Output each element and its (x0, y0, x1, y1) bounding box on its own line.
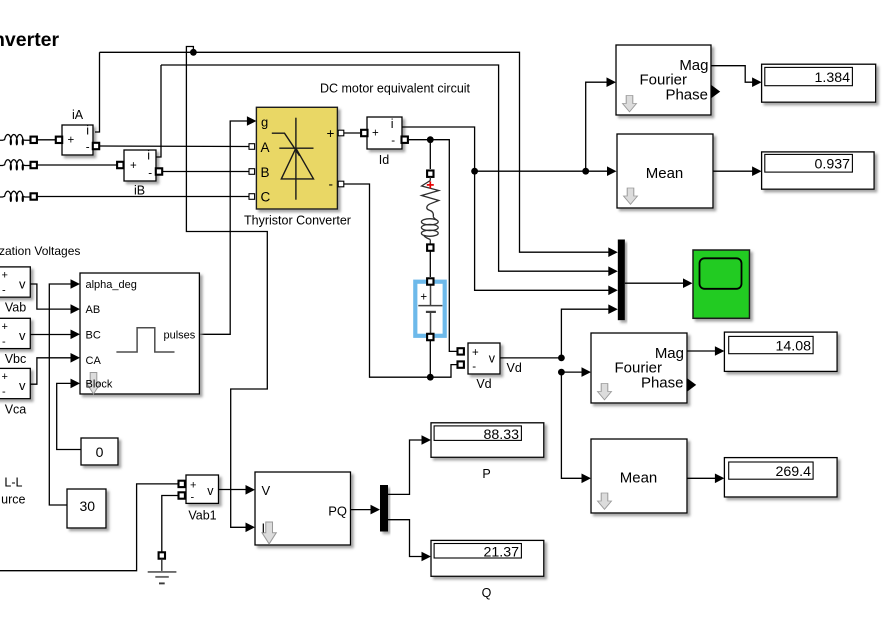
junction: mean/fourier branch (582, 168, 589, 175)
annotation: source label (clipped) (1, 476, 25, 507)
wire: 30 to alpha_deg input (49, 279, 80, 505)
svg-text:Mean: Mean (646, 165, 684, 182)
svg-text:v: v (19, 328, 26, 343)
svg-text:+: + (2, 371, 8, 383)
svg-text:C: C (261, 190, 271, 205)
wire: iA signal horizontal bus to mux (100, 52, 618, 257)
wire: battery minus down to dc bus (429, 340, 431, 377)
wire: pulses to g input (199, 116, 256, 334)
svg-text:i: i (86, 123, 89, 137)
voltage measurement Vbc (0, 318, 30, 366)
mean block 1 (617, 134, 713, 208)
display P (431, 423, 544, 481)
svg-text:BC: BC (86, 330, 101, 342)
svg-text:Block: Block (86, 378, 113, 390)
demux bar (380, 485, 388, 532)
svg-text:alpha_deg: alpha_deg (86, 279, 137, 291)
wire: iB minus to thyristor B (162, 171, 249, 173)
svg-text:v: v (207, 484, 214, 498)
svg-text:Vca: Vca (5, 403, 27, 417)
svg-text:I: I (262, 521, 266, 536)
wire: Vd down to Mean2 input (561, 372, 591, 483)
wire: fourier1 mag to display (711, 66, 762, 87)
svg-text:-: - (391, 135, 395, 147)
voltage measurement Vab1 (179, 475, 219, 523)
display 0.937 (762, 152, 875, 189)
wire: iB signal bus to mux (161, 65, 618, 276)
wire: Lb to iB+ (37, 164, 118, 166)
svg-text:g: g (261, 115, 268, 130)
junction: Vd node 1 (558, 355, 565, 362)
display 1.384 (762, 64, 876, 102)
svg-text:-: - (148, 168, 152, 180)
wire: thyristor + to Id (344, 132, 362, 134)
node: phase C terminal (31, 193, 37, 199)
svg-text:Vd: Vd (476, 377, 491, 391)
display Q (431, 540, 544, 600)
svg-text:Phase: Phase (641, 374, 684, 391)
wire: iB i-output up to bus (157, 65, 162, 157)
svg-text:v: v (19, 378, 26, 393)
svg-text:+: + (2, 321, 8, 333)
display 269.4 (724, 458, 837, 497)
wire: source line to Vab1 plus (0, 484, 179, 571)
svg-text:+: + (130, 160, 137, 172)
wire: La to iA+ (37, 139, 57, 141)
svg-text:-: - (2, 386, 6, 398)
power measurement PQ block (255, 472, 351, 545)
wire: node down to RL branch (429, 140, 431, 169)
title annotation (clipped) (0, 29, 60, 51)
svg-text:i: i (391, 117, 394, 131)
wire: Vab to AB input (30, 284, 80, 314)
svg-text:1.384: 1.384 (814, 70, 850, 86)
voltage measurement Vca (0, 368, 30, 416)
svg-text:+: + (472, 347, 479, 359)
wire: Vca to CA input (30, 353, 80, 384)
svg-text:i: i (147, 148, 150, 162)
svg-text:+: + (190, 480, 196, 492)
svg-text:-: - (86, 142, 90, 154)
svg-text:0.937: 0.937 (814, 157, 850, 173)
constant 30 alpha (67, 489, 106, 528)
wire: iA minus to thyristor A (100, 145, 249, 148)
ground symbol (148, 552, 177, 583)
svg-text:+: + (420, 292, 427, 304)
fourier block 1 (616, 45, 720, 115)
svg-text:zation Voltages: zation Voltages (0, 244, 80, 258)
wire: Id i-output to fourier/mean/mux (402, 127, 618, 295)
wire: mean1 to display (713, 166, 762, 176)
wire: Id minus to load branch (407, 139, 430, 141)
annotation: DC motor equivalent circuit (320, 82, 471, 96)
current measurement iA (56, 108, 99, 155)
svg-text:Id: Id (379, 153, 389, 167)
svg-text:v: v (19, 277, 26, 292)
wires and components layer (0, 135, 249, 202)
svg-text:v: v (489, 351, 496, 365)
svg-text:DC motor equivalent circuit: DC motor equivalent circuit (320, 82, 471, 96)
dc voltage source (selected, blue highlight) (415, 278, 444, 340)
svg-text:+: + (372, 128, 379, 140)
series RLC branch (R and L) (421, 171, 438, 251)
svg-text:14.08: 14.08 (775, 338, 811, 354)
pulse generator block (80, 273, 199, 394)
svg-text:Q: Q (482, 586, 492, 600)
svg-text:PQ: PQ (328, 504, 347, 519)
svg-text:urce: urce (1, 493, 25, 507)
svg-text:-: - (2, 285, 6, 297)
wire: Vab1 output to PQ V input (219, 485, 256, 495)
current measurement Id (361, 117, 408, 167)
svg-text:P: P (482, 467, 490, 481)
svg-text:Vab1: Vab1 (188, 509, 216, 523)
inductor Lc phase C (0, 191, 31, 201)
voltage measurement Vd (458, 343, 501, 391)
svg-text:nverter: nverter (0, 29, 60, 51)
wire: RL to battery (429, 250, 431, 277)
wire: Vd to Fourier2 input (561, 367, 591, 377)
annotation: Synchronization Voltages (clipped) (0, 244, 80, 258)
voltage measurement Vab (0, 267, 30, 315)
mux block (618, 240, 625, 321)
svg-text:AB: AB (86, 304, 101, 316)
fourier block 2 (591, 333, 696, 403)
wire: Id signal to Mean (475, 166, 617, 176)
svg-text:pulses: pulses (164, 330, 196, 342)
wire: demux to P display (388, 435, 431, 494)
svg-text:-: - (2, 336, 6, 348)
svg-text:0: 0 (96, 444, 104, 460)
wire: fourier2 mag to display (687, 346, 724, 356)
inductor La phase A (0, 135, 31, 145)
wire: iA i-output up to bus (95, 52, 100, 132)
scope block (693, 250, 750, 318)
junction: iA signal branch (190, 49, 197, 56)
svg-text:Thyristor Converter: Thyristor Converter (244, 214, 351, 228)
svg-text:269.4: 269.4 (775, 464, 811, 480)
thyristor converter block (244, 107, 351, 227)
svg-text:+: + (68, 135, 75, 147)
inductor Lb phase B (0, 160, 31, 170)
svg-text:Vbc: Vbc (5, 352, 27, 366)
svg-text:L-L: L-L (4, 476, 22, 490)
junction: dc bus node (427, 374, 434, 381)
svg-text:+: + (327, 126, 335, 141)
svg-text:88.33: 88.33 (483, 427, 519, 443)
svg-text:iB: iB (134, 184, 145, 198)
current measurement iB (117, 148, 162, 197)
junction: Id signal node (471, 168, 478, 175)
svg-text:B: B (261, 165, 270, 180)
svg-text:+: + (2, 270, 8, 282)
svg-text:-: - (472, 361, 476, 373)
svg-text:iA: iA (72, 108, 84, 122)
node: phase A terminal (31, 137, 37, 143)
svg-text:Vab: Vab (5, 301, 26, 315)
svg-text:-: - (191, 492, 195, 504)
svg-text:Phase: Phase (665, 86, 708, 103)
wire: 0 to Block input (57, 379, 81, 450)
wire: thyristor - down to dc bus junction (344, 184, 428, 377)
svg-text:-: - (329, 177, 334, 192)
wire: dc bus to Vd minus (430, 365, 458, 378)
wire: branch up to Fourier input (586, 77, 616, 171)
wire: Vbc to BC input (30, 330, 80, 340)
svg-text:A: A (261, 140, 270, 155)
svg-text:30: 30 (80, 498, 96, 514)
wire: PQ output to demux (351, 505, 381, 515)
constant 0 block (81, 438, 118, 465)
display 14.08 (724, 332, 837, 371)
svg-text:Vd: Vd (507, 361, 522, 375)
junction: load top node (427, 136, 434, 143)
wire: mux output to scope (625, 278, 693, 288)
wire: Lc to thyristor C input (37, 196, 249, 198)
thyristor symbol icon (272, 118, 314, 200)
wire: Vab1 minus to ground (162, 496, 179, 553)
wire: Vd up to mux input4 (561, 304, 617, 357)
node: phase B terminal (31, 162, 37, 168)
mean block 2 (591, 439, 687, 513)
wire: node to Vd plus (430, 140, 458, 352)
junction: Vd node 2 (558, 369, 565, 376)
svg-text:V: V (262, 483, 271, 498)
svg-text:CA: CA (86, 355, 102, 367)
svg-text:Mean: Mean (620, 470, 658, 487)
wire: mean2 to display (687, 474, 724, 484)
wire: Vd output (500, 358, 561, 375)
wire: iA signal branch to PQ I input (186, 47, 267, 533)
wire: demux to Q display (388, 520, 431, 562)
svg-text:21.37: 21.37 (483, 544, 519, 560)
